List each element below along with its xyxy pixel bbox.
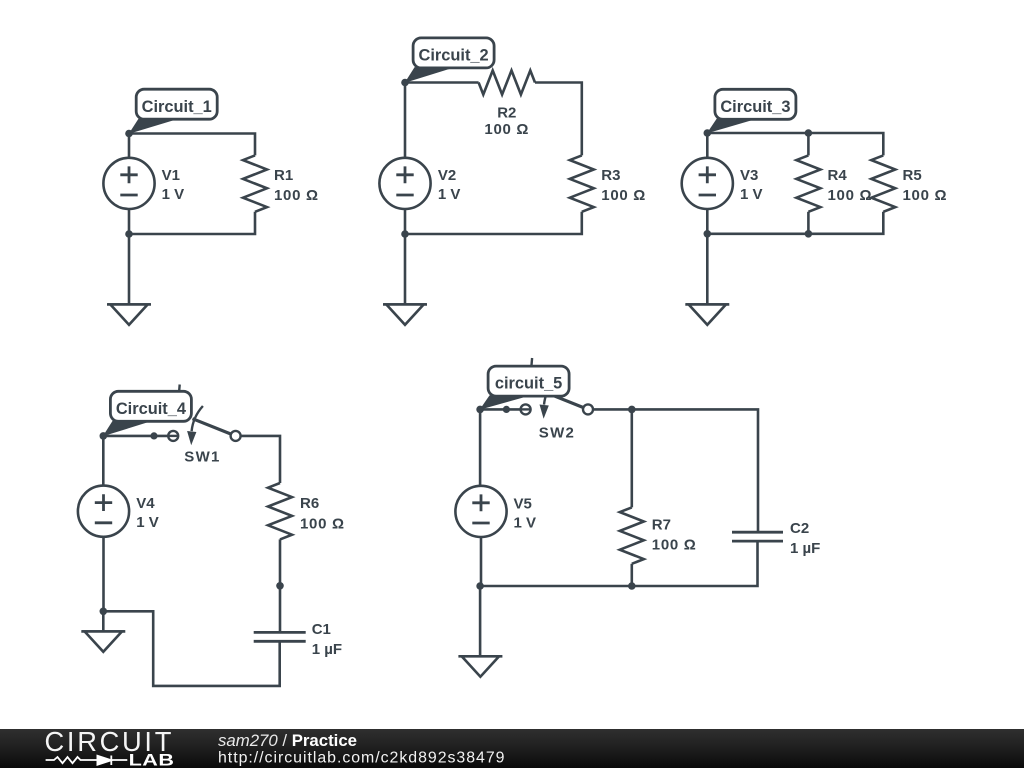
wire c4 ground lead: [102, 611, 105, 631]
svg-text:V5: V5: [514, 495, 532, 512]
svg-text:1 µF: 1 µF: [790, 540, 820, 557]
resistor R4: [796, 155, 820, 211]
voltage source V4: [78, 486, 129, 537]
resistor R3: [570, 155, 594, 211]
resistor R1: [243, 155, 267, 211]
node c3 bottom-left: [704, 230, 712, 238]
annotation bubble Circuit_1: [136, 89, 217, 119]
svg-text:Circuit_4: Circuit_4: [116, 400, 187, 418]
wire c5 R7 lead bottom: [630, 564, 633, 586]
wire c1 right-bottom: [129, 212, 255, 234]
capacitor C1: [254, 632, 306, 641]
svg-text:Circuit_3: Circuit_3: [720, 98, 790, 116]
node c4 bottom-left: [100, 608, 108, 616]
node c5 bottom junction: [628, 582, 636, 590]
svg-text:100 Ω: 100 Ω: [828, 187, 873, 204]
node c3 top-mid: [805, 129, 813, 137]
node c1 bottom-left: [125, 230, 133, 238]
voltage source V1: [103, 158, 154, 209]
wire c4 C1 to bottom loop: [103, 611, 279, 686]
annotation tail Circuit_1: [129, 118, 174, 133]
svg-text:100 Ω: 100 Ω: [903, 187, 948, 204]
resistor R6: [268, 483, 292, 539]
wire c3 top: [707, 133, 883, 155]
ground GND5: [458, 656, 502, 676]
svg-text:1 V: 1 V: [162, 186, 185, 203]
annotation bubble circuit_5: [488, 366, 569, 396]
node c5 top junction: [628, 406, 636, 414]
svg-text:1 V: 1 V: [740, 186, 763, 203]
svg-text:R6: R6: [300, 495, 319, 512]
node c3 top-left: [704, 129, 712, 137]
wire c4 left bottom: [102, 537, 105, 612]
ground GND2: [383, 304, 427, 324]
wire c1 ground lead: [128, 234, 131, 304]
wire c2 ground lead: [404, 234, 407, 304]
svg-text:circuit_5: circuit_5: [495, 375, 562, 393]
wire c3 r4 lead bottom: [807, 212, 810, 234]
wire c4 left top: [102, 436, 105, 486]
voltage source V3: [682, 158, 733, 209]
wire c5 wire to switch: [480, 408, 530, 411]
logo resistor-diode squiggle: [46, 756, 128, 766]
svg-text:SW2: SW2: [539, 424, 575, 441]
svg-text:V1: V1: [162, 167, 180, 184]
wire c5 switch to right: [593, 409, 758, 532]
svg-text:1 V: 1 V: [136, 514, 159, 531]
wire c2 top left: [405, 81, 479, 84]
wire c2 right bottom: [405, 212, 582, 234]
node c2 top-left: [401, 79, 409, 87]
wire c3 left top: [706, 133, 709, 158]
wire c2 left top: [404, 83, 407, 159]
svg-text:1 V: 1 V: [438, 186, 461, 203]
resistor R5: [871, 155, 895, 211]
annotation tail Circuit_2: [405, 67, 450, 83]
svg-text:C1: C1: [312, 621, 331, 638]
wire c5 C2 to bottom: [480, 542, 757, 586]
svg-text:1 V: 1 V: [514, 514, 537, 531]
svg-text:100 Ω: 100 Ω: [274, 187, 319, 204]
svg-text:R4: R4: [828, 167, 848, 184]
node c5 bottom-left: [476, 582, 484, 590]
footer bar: [0, 729, 1024, 768]
node c4 r6-c1: [276, 582, 284, 590]
resistor R2: [479, 71, 535, 95]
svg-text:100 Ω: 100 Ω: [300, 515, 345, 532]
wire c2 left bottom: [404, 209, 407, 234]
node c3 bottom-mid: [805, 230, 813, 238]
svg-text:V3: V3: [740, 167, 758, 184]
wire c4 R6 to C1: [279, 539, 282, 632]
node c4 top-left: [100, 432, 108, 440]
wire c5 R7 lead top: [630, 409, 633, 507]
voltage source V2: [379, 158, 430, 209]
svg-text:V4: V4: [136, 495, 155, 512]
svg-text:sam270 / Practice: sam270 / Practice: [218, 731, 357, 750]
annotation tail Circuit_3: [707, 119, 752, 134]
svg-text:V2: V2: [438, 167, 456, 184]
annotation bubble Circuit_4: [110, 391, 191, 421]
wire c2 top right: [535, 83, 582, 156]
svg-text:R1: R1: [274, 167, 293, 184]
svg-text:1 µF: 1 µF: [312, 641, 342, 658]
wire c4 switch to R6: [241, 436, 280, 483]
svg-text:R5: R5: [903, 167, 922, 184]
voltage source V5: [455, 486, 506, 537]
svg-text:SW1: SW1: [184, 449, 220, 466]
svg-text:100 Ω: 100 Ω: [601, 187, 646, 204]
node c5 top-left: [476, 406, 484, 414]
svg-text:100 Ω: 100 Ω: [484, 121, 529, 138]
svg-text:R3: R3: [601, 167, 620, 184]
svg-text:C2: C2: [790, 520, 809, 537]
wire c3 ground lead: [706, 234, 709, 305]
switch SW1: [150, 385, 240, 446]
wire c3 left bottom: [706, 209, 709, 234]
annotation bubble Circuit_2: [413, 38, 494, 68]
wire c3 r4 lead top: [807, 133, 810, 155]
annotation tail circuit_5: [480, 395, 525, 410]
node c2 bottom-left: [401, 230, 409, 238]
wire c1 left bottom: [128, 209, 131, 234]
svg-text:http://circuitlab.com/c2kd892s: http://circuitlab.com/c2kd892s38479: [218, 750, 505, 767]
capacitor C2: [732, 532, 783, 541]
svg-text:Circuit_1: Circuit_1: [142, 98, 212, 116]
annotation bubble Circuit_3: [715, 89, 796, 119]
svg-text:LAB: LAB: [129, 751, 175, 768]
wire c1 left top: [128, 134, 131, 159]
svg-text:R7: R7: [652, 517, 671, 534]
node c1 top-left: [125, 130, 133, 138]
wire c5 left bottom: [480, 537, 483, 586]
ground GND1: [107, 304, 151, 324]
wire c4 wire to switch: [103, 435, 178, 438]
ground GND4: [81, 631, 125, 651]
ground GND3: [685, 304, 729, 324]
switch SW2: [503, 358, 593, 419]
resistor R7: [620, 507, 644, 563]
svg-text:R2: R2: [497, 105, 516, 122]
wire c5 left top: [479, 409, 482, 485]
annotation tail Circuit_4: [103, 421, 148, 437]
wire c3 right bottom: [707, 212, 883, 234]
svg-text:100 Ω: 100 Ω: [652, 537, 697, 554]
svg-text:Circuit_2: Circuit_2: [419, 47, 489, 65]
wire c5 ground lead: [479, 586, 482, 656]
wire c1 top: [129, 134, 255, 156]
